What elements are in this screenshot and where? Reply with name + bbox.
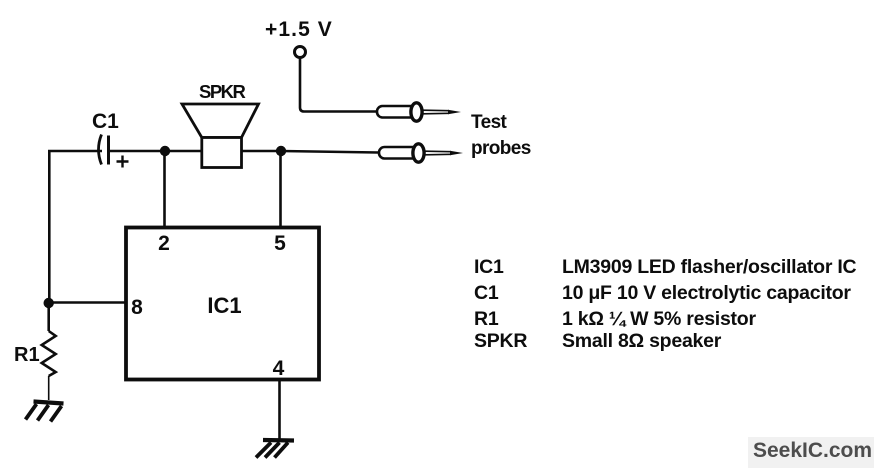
node junction R1 / pin 8 [44,298,54,308]
test probe (top) [377,103,461,121]
svg-text:SeekIC.com: SeekIC.com [753,439,872,462]
IC U1 (IC1) box [126,228,319,381]
resistor R1 zigzag [42,331,56,376]
ground (right, below pin 4) [256,440,294,458]
svg-text:SPKR: SPKR [199,81,246,102]
parts list [474,256,857,352]
svg-text:SPKR: SPKR [474,330,527,352]
svg-text:IC1: IC1 [207,293,241,318]
svg-text:1 kΩ ¼ W 5% resistor: 1 kΩ ¼ W 5% resistor [562,308,756,330]
svg-text:2: 2 [158,232,170,255]
svg-text:10 μF 10 V electrolytic capaci: 10 μF 10 V electrolytic capacitor [562,282,851,304]
node junction right (pin 5 tap) [276,146,286,156]
wire R1 bottom lead to ground [48,376,50,400]
speaker body [202,138,242,168]
wire pin 4 to ground [278,379,281,440]
label Test probes [471,112,531,159]
wire node to R1 top [47,303,50,331]
ground (left, below R1) [26,402,64,422]
svg-text:8: 8 [131,296,143,319]
speaker SPKR [182,81,259,168]
speaker horn [182,104,259,138]
svg-text:R1: R1 [474,308,499,330]
node +1.5 V battery terminal [265,18,333,58]
wire pin 5 [279,151,282,228]
test probe (bottom) [379,144,463,162]
wire pin 8 [49,301,126,304]
resistor R1 [14,331,56,376]
capacitor C1 straight plate [107,136,110,165]
wire C1 right plate to speaker (through node) [108,150,203,153]
svg-text:Small 8Ω speaker: Small 8Ω speaker [562,330,722,352]
watermark SeekIC.com [748,437,874,468]
capacitor C1 curved plate [99,135,102,165]
svg-text:Test: Test [471,112,508,133]
polarity mark + [117,156,129,168]
svg-text:LM3909 LED flasher/oscillator: LM3909 LED flasher/oscillator IC [562,256,857,278]
wire pin 2 [163,151,166,228]
svg-text:IC1: IC1 [474,256,504,278]
wire left branch: C1 left plate to corner down to pin 8 node [49,151,102,303]
capacitor C1 [92,110,129,168]
node junction left (pin 2 tap) [160,146,170,156]
svg-text:4: 4 [273,357,285,380]
svg-text:5: 5 [274,232,286,255]
svg-text:R1: R1 [14,344,40,366]
wire speaker to right node [241,150,282,153]
svg-text:probes: probes [471,138,531,159]
svg-text:C1: C1 [474,282,499,304]
svg-text:C1: C1 [92,110,119,133]
svg-text:+1.5 V: +1.5 V [265,18,333,41]
wire right node to bottom test probe [281,151,378,153]
wire terminal to top test probe [300,58,376,112]
